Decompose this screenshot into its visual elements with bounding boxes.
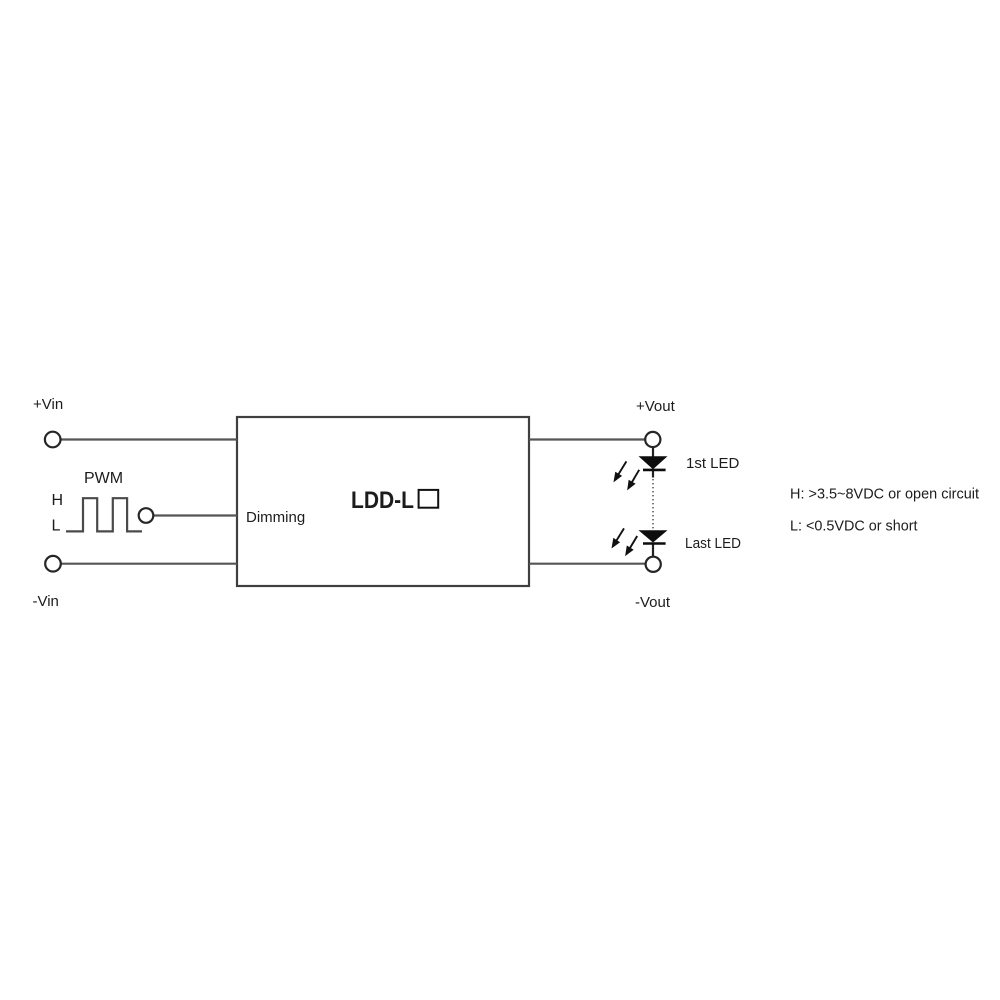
svg-text:LDD-L: LDD-L (351, 487, 414, 514)
svg-text:-Vin: -Vin (33, 593, 59, 610)
svg-text:+Vin: +Vin (33, 396, 63, 413)
svg-text:L: <0.5VDC or short: L: <0.5VDC or short (790, 518, 918, 535)
svg-text:-Vout: -Vout (635, 594, 671, 611)
svg-text:H: H (52, 492, 64, 509)
svg-text:L: L (52, 518, 61, 535)
svg-text:+Vout: +Vout (636, 398, 676, 415)
svg-text:1st LED: 1st LED (686, 455, 740, 472)
svg-text:PWM: PWM (84, 470, 123, 487)
svg-text:Dimming: Dimming (246, 509, 305, 526)
svg-text:Last LED: Last LED (685, 535, 741, 552)
svg-text:H: >3.5~8VDC or open circuit: H: >3.5~8VDC or open circuit (790, 486, 980, 503)
